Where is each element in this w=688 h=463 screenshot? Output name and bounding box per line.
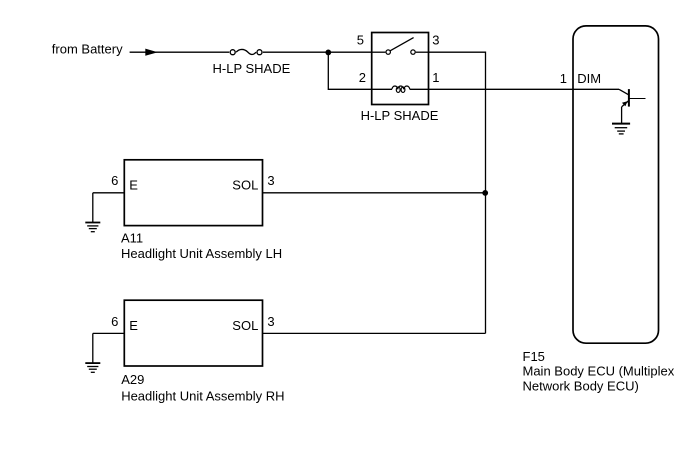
svg-text:1: 1 xyxy=(560,71,567,86)
svg-text:1: 1 xyxy=(432,70,439,85)
svg-text:from Battery: from Battery xyxy=(52,41,123,56)
svg-text:3: 3 xyxy=(267,314,274,329)
svg-text:H-LP SHADE: H-LP SHADE xyxy=(361,108,439,123)
svg-text:5: 5 xyxy=(357,33,364,48)
svg-text:H-LP SHADE: H-LP SHADE xyxy=(213,61,291,76)
svg-text:6: 6 xyxy=(111,173,118,188)
svg-text:E: E xyxy=(129,178,138,193)
svg-text:A11: A11 xyxy=(121,230,143,245)
svg-text:3: 3 xyxy=(267,173,274,188)
svg-text:Network Body ECU): Network Body ECU) xyxy=(523,379,639,394)
svg-text:DIM: DIM xyxy=(577,71,601,86)
svg-text:2: 2 xyxy=(359,70,366,85)
svg-text:F15: F15 xyxy=(523,349,545,364)
svg-text:SOL: SOL xyxy=(232,178,258,193)
svg-text:SOL: SOL xyxy=(232,318,258,333)
svg-text:E: E xyxy=(129,318,138,333)
svg-text:Headlight Unit Assembly RH: Headlight Unit Assembly RH xyxy=(121,389,284,404)
svg-text:3: 3 xyxy=(432,33,439,48)
svg-text:Main Body ECU (Multiplex: Main Body ECU (Multiplex xyxy=(523,364,675,379)
svg-text:6: 6 xyxy=(111,314,118,329)
svg-text:Headlight Unit Assembly LH: Headlight Unit Assembly LH xyxy=(121,246,282,261)
svg-text:A29: A29 xyxy=(121,372,144,387)
